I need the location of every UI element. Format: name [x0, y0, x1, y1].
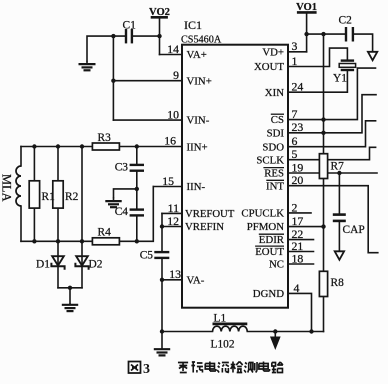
resistor R4 [92, 238, 119, 245]
diode D1 (zener) [51, 256, 64, 270]
svg-text:RES: RES [264, 168, 284, 180]
svg-text:VREFOUT: VREFOUT [185, 208, 235, 220]
capacitor CAP [333, 215, 346, 221]
wire pin6 SDO to riser exit [288, 121, 376, 147]
capacitor C1 [126, 29, 132, 43]
diode D2 (zener) [75, 256, 88, 270]
svg-text:SDI: SDI [267, 127, 285, 139]
open arrow (below C2, supply) [368, 52, 377, 61]
svg-text:VIN+: VIN+ [187, 75, 212, 87]
wire C1 left to corner and ground stem [87, 36, 126, 61]
wire C3 bottom to mid node [136, 171, 138, 189]
wire pin7 CS to riser exit [288, 68, 376, 120]
ground (below diodes D1 D2) [62, 303, 78, 311]
resistor R3 [92, 143, 119, 150]
wire C4 top lead [136, 189, 138, 209]
svg-text:C5: C5 [140, 250, 154, 262]
caption char 检 [231, 362, 243, 373]
wire bottom rail right segment [247, 331, 323, 333]
svg-text:R7: R7 [331, 161, 345, 173]
svg-text:CAP: CAP [343, 224, 365, 236]
ground (bottom rail left end) [154, 332, 170, 356]
svg-text:C3: C3 [115, 162, 129, 174]
svg-text:EDIR: EDIR [259, 234, 285, 246]
wire top rail IIN+ net (MLA to R3) [21, 146, 92, 148]
capacitor C4 [130, 210, 144, 216]
svg-text:VREFIN: VREFIN [185, 221, 224, 233]
caption char 系 [178, 363, 188, 373]
wire pin15 IIN- [153, 186, 182, 188]
wire R4 to IIN- corner [119, 187, 153, 242]
svg-text:14: 14 [167, 42, 179, 56]
svg-text:18: 18 [292, 251, 304, 265]
wire C5 bottom to VA- [161, 258, 163, 280]
svg-text:C4: C4 [115, 206, 129, 218]
svg-text:9: 9 [173, 68, 179, 82]
svg-text:23: 23 [292, 120, 304, 134]
svg-text:17: 17 [292, 214, 304, 228]
svg-text:DGND: DGND [253, 288, 284, 300]
inductor MLA coil [16, 166, 21, 206]
wire C1 right to VO2 vertical [132, 35, 160, 37]
wire R7 to R8 segment [323, 179, 325, 272]
svg-text:VO1: VO1 [296, 2, 317, 13]
svg-text:24: 24 [292, 80, 304, 94]
wire pin11 VREFOUT [162, 212, 182, 214]
wire R1 branch vertical [33, 147, 35, 242]
svg-text:7: 7 [292, 107, 298, 121]
caption 图3 系统电流检测电路 (drawn strokes) [129, 362, 151, 377]
inductor L1 coil [213, 326, 248, 331]
caption char 电 [205, 362, 216, 372]
wire arrow stem on bottom rail [274, 332, 276, 338]
wire pin2 CPUCLK stub [288, 212, 311, 214]
svg-text:NC: NC [269, 259, 284, 271]
svg-text:R8: R8 [331, 277, 345, 289]
wire pin20 INT line [288, 186, 378, 253]
wire pin22 EDIR stub [288, 239, 314, 241]
wire D2 cathode lead [81, 266, 83, 287]
wire CAP top lead from RES line [338, 173, 340, 214]
svg-text:MLA: MLA [0, 174, 14, 202]
wire R7 net riser from C2 line [323, 34, 325, 154]
svg-text:VA+: VA+ [187, 49, 207, 61]
capacitor C5 [154, 252, 169, 258]
caption text 系统电流检测电路 strokes [178, 362, 283, 373]
capacitor C3 [130, 165, 144, 171]
caption char 流 [217, 363, 229, 373]
wire pin18 NC stub [288, 263, 314, 265]
svg-text:VO2: VO2 [149, 7, 170, 18]
open arrow (below CAP) [335, 251, 344, 259]
node VO1 terminal [298, 12, 315, 51]
svg-text:PFMON: PFMON [247, 221, 284, 233]
wire pin10 VIN- [113, 119, 182, 121]
wire pin4 DGND to bottom rail [288, 293, 312, 331]
caption char 电 (second) [259, 362, 270, 372]
wire third branch vertical [81, 147, 83, 242]
svg-text:CPUCLK: CPUCLK [241, 208, 284, 220]
svg-text:IIN+: IIN+ [187, 141, 208, 153]
svg-text:R3: R3 [98, 132, 112, 144]
wire VO1 node to C2 [307, 33, 346, 35]
wire VREF vertical to C5 [161, 213, 163, 251]
wire pin17 PFMON to R7R8 net [288, 226, 324, 228]
resistor R7 [319, 154, 327, 179]
wire pin13 VA- [162, 279, 182, 281]
svg-text:IC1: IC1 [184, 18, 202, 32]
wire pin12 VREFIN [162, 226, 182, 228]
svg-text:4: 4 [294, 281, 300, 295]
svg-text:Y1: Y1 [333, 73, 347, 85]
svg-text:IIN-: IIN- [187, 181, 206, 193]
svg-text:XIN: XIN [265, 87, 284, 99]
filled arrow (bottom rail) [271, 337, 280, 349]
wire VA- down to bottom rail [161, 280, 163, 332]
wire diode node to ground stem [69, 288, 71, 304]
svg-text:C2: C2 [339, 15, 353, 27]
wire R3 to pin16 IIN+ [119, 146, 182, 148]
wire C3 top lead [136, 147, 138, 165]
svg-text:R2: R2 [65, 191, 79, 203]
svg-text:15: 15 [162, 174, 174, 188]
wire D1 anode lead [57, 241, 59, 266]
wire pin19 RES line [288, 172, 377, 174]
wire pin23 SDI to riser exit [288, 95, 376, 133]
wire R2 branch vertical [57, 147, 59, 242]
wire CAP bottom lead to arrow [338, 222, 340, 252]
svg-text:3: 3 [292, 39, 298, 53]
capacitor C2 [346, 27, 353, 42]
wire D2 anode lead [81, 241, 83, 266]
svg-text:CS5460A: CS5460A [181, 34, 222, 45]
node VO2 terminal [152, 17, 167, 54]
svg-text:L102: L102 [211, 339, 235, 351]
svg-text:16: 16 [164, 134, 176, 148]
inductor L1 core bar [213, 322, 248, 325]
svg-text:R4: R4 [98, 227, 112, 239]
wire D1 cathode lead [57, 266, 59, 287]
svg-text:C1: C1 [123, 20, 137, 32]
svg-text:11: 11 [168, 201, 179, 215]
wire R8 bottom lead [323, 297, 325, 332]
svg-text:VA-: VA- [187, 274, 205, 286]
svg-text:CS: CS [271, 114, 284, 126]
wire C2 right to arrow [353, 34, 373, 52]
caption char 路 [272, 362, 283, 373]
wire pin14 VA+ to VO2 vertical [160, 54, 183, 56]
svg-text:L1: L1 [214, 313, 227, 325]
svg-text:VD+: VD+ [262, 46, 284, 58]
wire pin21 EOUT stub [288, 251, 314, 253]
resistor R2 [53, 181, 63, 208]
svg-text:6: 6 [292, 134, 298, 148]
wire C4 bottom lead [136, 216, 138, 242]
resistor R8 [319, 271, 327, 296]
svg-text:20: 20 [292, 173, 304, 187]
ground (between C3 and C4) [105, 197, 121, 207]
svg-text:3: 3 [143, 362, 150, 377]
svg-text:13: 13 [169, 267, 181, 281]
wire diode common node [58, 287, 82, 289]
wire pin3 VD+ [288, 51, 307, 53]
svg-text:INT: INT [266, 180, 284, 192]
svg-text:1: 1 [292, 54, 298, 68]
caption char 图 [129, 362, 141, 374]
caption char 测 [244, 362, 257, 373]
resistor R1 [29, 181, 39, 208]
svg-text:SDO: SDO [262, 141, 284, 153]
wire MLA left vertical top [20, 147, 22, 167]
svg-text:12: 12 [167, 214, 179, 228]
svg-text:XOUT: XOUT [254, 61, 284, 73]
wire bottom rail left segment [162, 331, 213, 333]
svg-text:10: 10 [167, 108, 179, 122]
ground (top-left near C1) [79, 61, 96, 71]
wire MLA left vertical bottom [20, 206, 22, 241]
wire C1-left junction down to pin9 pin10 [112, 36, 114, 120]
svg-text:2: 2 [292, 200, 298, 214]
wire bottom rail R4 net [21, 240, 92, 242]
svg-text:VIN-: VIN- [187, 115, 210, 127]
svg-text:D1: D1 [36, 259, 50, 271]
wire pin24 XIN to crystal bottom [288, 71, 347, 92]
wire pin5 SCLK to riser exit [288, 147, 376, 159]
wire pin9 VIN+ [113, 80, 182, 82]
wire mid node to ground stem [114, 189, 137, 198]
svg-text:5: 5 [292, 147, 298, 161]
crystal Y1 [339, 61, 355, 70]
svg-text:R1: R1 [42, 191, 56, 203]
wire pin1 XOUT to crystal top [288, 48, 347, 66]
op-amp U1 : IC1 CS5460A body [182, 45, 288, 308]
caption char 统 [191, 362, 203, 373]
svg-text:EOUT: EOUT [255, 246, 284, 258]
svg-text:D2: D2 [89, 259, 103, 271]
svg-text:SCLK: SCLK [256, 154, 284, 166]
